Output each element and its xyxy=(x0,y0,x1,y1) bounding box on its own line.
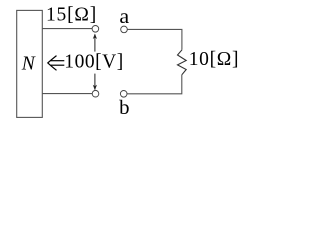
svg-text:N: N xyxy=(21,53,36,74)
bottom output terminal (open circle) xyxy=(92,90,99,97)
svg-text:100[V]: 100[V] xyxy=(64,51,123,72)
svg-text:15[Ω]: 15[Ω] xyxy=(46,4,96,25)
network N (two-terminal source box) xyxy=(17,10,43,117)
resistor R 10 ohm (zigzag) xyxy=(178,50,187,75)
arrow glyph leftwards double arrow xyxy=(48,56,65,71)
svg-text:a: a xyxy=(119,7,129,28)
svg-text:10[Ω]: 10[Ω] xyxy=(189,49,239,70)
wire: terminal a to resistor top xyxy=(127,29,181,49)
top output terminal (open circle) xyxy=(92,26,99,33)
terminal b (open circle) xyxy=(120,91,127,98)
terminal a (open circle) xyxy=(121,26,128,33)
svg-text:b: b xyxy=(119,98,129,119)
voltage arrow 100 V between terminals xyxy=(93,34,97,91)
wire: box to top terminal xyxy=(42,28,92,30)
wire: box to bottom terminal xyxy=(42,93,92,95)
wire: resistor bottom to terminal b xyxy=(127,75,182,94)
